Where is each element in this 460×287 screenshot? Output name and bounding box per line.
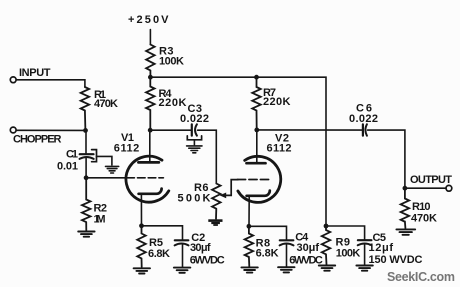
svg-text:220K: 220K (159, 97, 187, 109)
label R5 value (148, 237, 170, 260)
node V2 cathode junction (247, 224, 252, 229)
svg-text:6WVDC: 6WVDC (289, 255, 323, 267)
resistor R8 (245, 226, 254, 266)
wire C3 shield to ground (193, 140, 195, 145)
wire V2 plate node to C6 (257, 129, 363, 131)
label R2 value (94, 203, 108, 226)
resistor R1 (81, 87, 90, 130)
resistor R2 (82, 178, 91, 230)
label R1 value (94, 89, 118, 110)
resistor R5 (137, 226, 146, 267)
resistor R9 (322, 226, 331, 265)
node R9 junction (324, 224, 329, 229)
svg-text:6WVDC: 6WVDC (190, 255, 225, 267)
envelope V2 (238, 156, 281, 202)
plate V2 (247, 162, 266, 165)
label V2 6112 (267, 133, 292, 155)
ground (C3 shield) (187, 146, 202, 153)
svg-text:0.022: 0.022 (180, 113, 209, 125)
svg-text:220K: 220K (263, 96, 291, 108)
label R4 value (159, 88, 187, 109)
ground (R6, solid chassis style) (208, 219, 222, 226)
label OUTPUT (410, 174, 452, 186)
ground (C2) (174, 268, 190, 273)
label CHOPPER (13, 134, 62, 146)
ground (C1 shield) (106, 166, 119, 173)
capacitor C2 (175, 240, 189, 266)
svg-text:C1: C1 (66, 149, 78, 161)
ground (R10) (396, 229, 415, 234)
svg-text:INPUT: INPUT (19, 67, 51, 79)
node B+ rail junction (148, 75, 153, 80)
svg-text:500K: 500K (178, 193, 211, 205)
svg-text:OUTPUT: OUTPUT (410, 174, 452, 186)
cathode V2 (247, 191, 270, 196)
capacitor C1 (80, 130, 94, 177)
label R6 value (178, 182, 211, 205)
svg-text:30μf: 30μf (297, 242, 320, 254)
svg-text:470K: 470K (411, 212, 437, 224)
wire C6 to output node (368, 130, 405, 188)
node X junction (R1/CHOPPER/C1) (83, 128, 88, 133)
label R9 value (336, 236, 361, 259)
shield bracket of C3 (187, 136, 201, 140)
shield bracket of C1 (92, 150, 97, 162)
wire to OUTPUT terminal (405, 187, 446, 189)
label INPUT (19, 67, 51, 79)
svg-text:0.022: 0.022 (349, 113, 378, 125)
grid V1 (86, 177, 126, 179)
svg-text:100K: 100K (159, 56, 184, 68)
resistor R7 (252, 77, 261, 130)
label R10 value (411, 201, 437, 224)
resistor R10 (401, 188, 410, 228)
svg-text:+250V: +250V (128, 14, 169, 26)
capacitor C5 (358, 240, 372, 264)
wire +250V feed (149, 30, 151, 45)
tube V2 6112 (237, 130, 280, 226)
svg-text:0.01: 0.01 (57, 161, 78, 173)
plate V1 (138, 161, 159, 164)
ground (C4) (278, 267, 294, 272)
wire C1 shield to ground (97, 156, 112, 165)
ground (C5) (356, 266, 372, 271)
ground (R5) (134, 268, 150, 273)
svg-text:12μf: 12μf (369, 242, 394, 254)
label C6 value (349, 103, 378, 126)
node OUTPUT junction (403, 186, 408, 191)
label R8 value (256, 237, 279, 259)
label R3 value (159, 46, 184, 68)
svg-text:30μf: 30μf (190, 242, 211, 254)
node R7 top junction (254, 75, 259, 80)
svg-text:1M: 1M (94, 213, 106, 225)
svg-text:6112: 6112 (114, 143, 140, 155)
node INPUT terminal (10, 77, 16, 83)
resistor R4 (146, 77, 155, 130)
svg-text:150 WVDC: 150 WVDC (369, 254, 423, 266)
tube V1 6112 (86, 130, 169, 226)
label +250V (128, 14, 169, 26)
watermark SeekIC.com (387, 270, 455, 284)
capacitor C6 (363, 124, 367, 135)
label R7 value (263, 87, 291, 108)
ground (R8) (241, 267, 257, 272)
svg-text:6.8K: 6.8K (148, 248, 170, 260)
svg-text:SeekIC.com: SeekIC.com (387, 270, 455, 284)
node V2 plate junction (254, 127, 259, 132)
potentiometer R6 (212, 184, 221, 219)
wire V2 cathode to C4 (249, 226, 287, 239)
wire INPUT to R1 top (16, 80, 85, 87)
svg-text:CHOPPER: CHOPPER (13, 134, 62, 146)
wire C3 to R6 top (198, 130, 217, 183)
wire R9 node to C5 (326, 226, 365, 239)
node Y junction (C1/R2/V1 grid) (84, 175, 89, 180)
svg-text:100K: 100K (336, 247, 361, 259)
resistor R3 (146, 45, 155, 78)
node CHOPPER terminal (10, 127, 16, 133)
svg-text:470K: 470K (94, 98, 118, 110)
cathode V1 (139, 189, 162, 194)
wire cathode node to C2 (142, 226, 183, 239)
svg-text:6.8K: 6.8K (256, 248, 279, 260)
wiper of R6 to V2 grid (220, 180, 238, 199)
label C5 value (369, 232, 423, 266)
svg-text:6112: 6112 (267, 143, 292, 155)
label C4 value (289, 232, 323, 267)
wire V1 plate node to C3 (150, 129, 191, 131)
grid V2 (237, 179, 269, 181)
ground (R9) (319, 266, 335, 271)
node OUTPUT terminal (446, 185, 452, 191)
wire CHOPPER to node X (16, 129, 85, 131)
capacitor C3 (192, 124, 197, 135)
capacitor C4 (280, 240, 294, 266)
ground (R2) (78, 232, 94, 237)
label C1 value (57, 149, 78, 173)
envelope V1 (126, 156, 169, 202)
label C3 value (180, 103, 209, 125)
label C2 value (190, 232, 225, 267)
node V1 plate junction (148, 128, 153, 133)
label V1 6112 (114, 132, 140, 155)
node V1 cathode junction (139, 223, 144, 228)
wire B+ rail (150, 77, 326, 226)
